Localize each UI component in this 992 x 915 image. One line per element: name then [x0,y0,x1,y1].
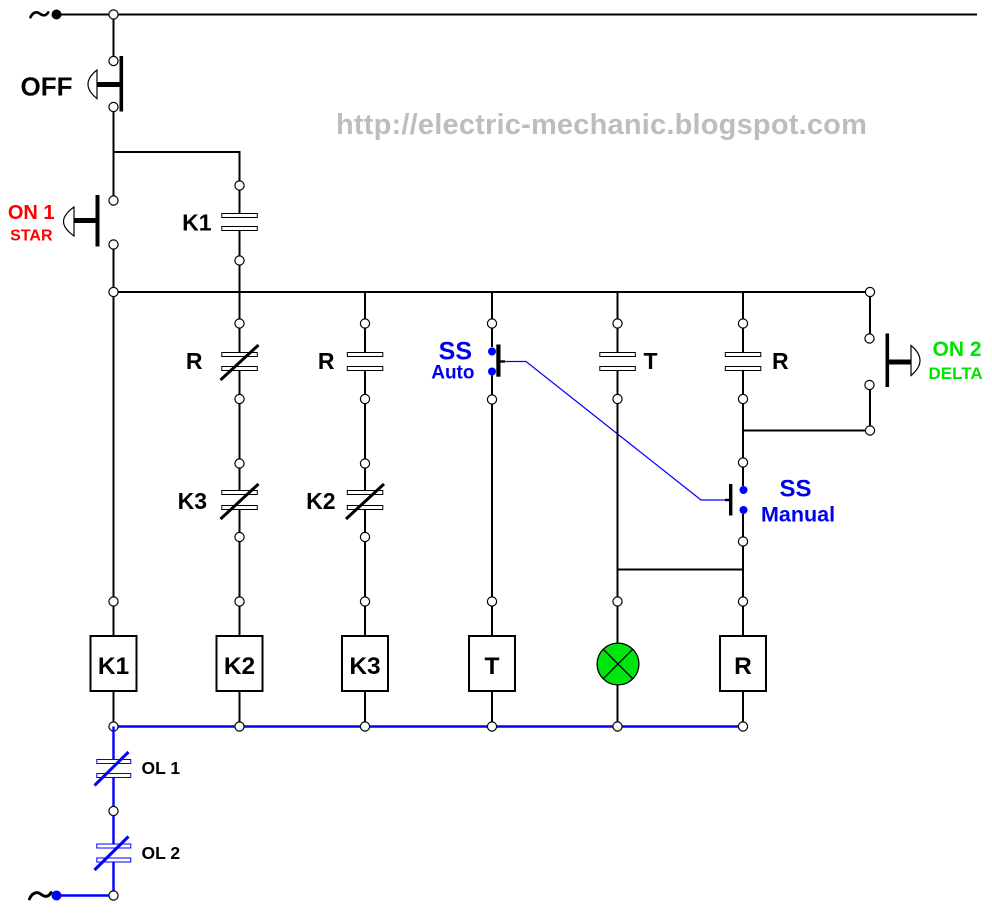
wire [113,607,115,637]
terminal [360,319,369,328]
push button ON2 (NO) [886,334,921,388]
push button ON1 (NO) [64,195,119,249]
wire [617,329,619,354]
wire [364,371,366,395]
terminal above lamp [613,597,622,606]
indicator lamp (green) [597,643,639,685]
svg-text:K1: K1 [98,653,129,680]
svg-text:STAR: STAR [10,228,53,245]
wire [491,376,493,396]
contact K1 (NO seal-in) [222,214,257,231]
terminal [738,458,747,467]
svg-text:Auto: Auto [431,363,474,384]
wire: K1 contact to bus, continues to branch 2 [239,266,241,320]
wire [239,510,241,533]
contact K3 (NC) [221,484,259,519]
wire [239,404,241,459]
wire (blue) to source [57,894,109,896]
wire [239,329,241,354]
terminal above K2 coil [235,597,244,606]
wire [742,607,744,637]
supply terminal dot (bottom, blue) [52,891,62,901]
coil T (timer) [469,636,515,691]
wire [239,691,241,722]
contact R (NO) [725,353,761,371]
svg-text:K2: K2 [306,488,335,514]
node [613,722,622,731]
svg-text:SS: SS [439,338,472,366]
overload contact OL2 (NC, blue) [95,837,131,871]
coil K1 [91,636,137,691]
neutral bus (blue) [114,725,744,727]
svg-text:OL 2: OL 2 [142,843,181,863]
node [738,722,747,731]
wire [742,691,744,722]
terminal [235,459,244,468]
wire [617,685,619,722]
wire [364,510,366,533]
svg-text:OL 1: OL 1 [142,758,181,778]
svg-text:http://electric-mechanic.blogs: http://electric-mechanic.blogspot.com [336,109,867,141]
AC source symbol ~ (top left) [31,12,49,17]
svg-text:K1: K1 [182,210,212,236]
node [487,722,496,731]
selector switch SS (Manual position, open) [725,484,748,516]
control bus [114,291,871,293]
terminal: K1 contact bottom [235,256,244,265]
svg-text:R: R [186,348,203,374]
terminal [235,319,244,328]
wire down to lamp [617,404,619,597]
wire [491,607,493,637]
svg-text:K3: K3 [349,653,380,680]
wire [239,191,241,215]
wire: top rail down to OFF button [113,15,115,57]
wire [742,467,744,486]
terminal bottom [109,891,118,900]
wire [742,514,744,537]
terminal: K1 contact top [235,181,244,190]
wire [617,371,619,395]
node: bus left end [109,287,118,296]
contact R (NO) [347,353,383,371]
wire [617,607,619,647]
wire [364,404,366,459]
terminal [865,426,874,435]
svg-text:R: R [772,348,789,374]
coil K2 [217,636,263,691]
wire (blue) [112,778,114,807]
node: top rail junction [109,10,118,19]
wire [364,607,366,637]
svg-text:DELTA: DELTA [929,364,983,383]
wire [742,546,744,597]
wire [491,329,493,348]
wire [239,231,241,257]
wire through bus [617,292,619,319]
wire [491,691,493,722]
svg-text:OFF: OFF [21,72,73,102]
wire through bus [364,292,366,319]
svg-text:R: R [318,348,335,374]
wire [364,542,366,597]
wire through bus [742,292,744,319]
terminal [360,532,369,541]
svg-text:SS: SS [780,476,812,503]
wire [239,468,241,491]
terminal [738,394,747,403]
terminal [487,395,496,404]
selector switch SS (Auto position, closed) [488,345,505,377]
wire [364,329,366,354]
wire [239,371,241,395]
svg-text:T: T [485,653,500,680]
wire (blue) down to OL1 [112,727,114,761]
node [109,722,118,731]
wire: left rail down to K1 coil [113,297,115,597]
push button OFF (NC) [88,56,123,112]
wire [742,371,744,395]
terminal [865,334,874,343]
terminal [487,319,496,328]
svg-text:ON 1: ON 1 [8,202,55,224]
terminal [235,532,244,541]
terminal above R coil [738,597,747,606]
terminal above K3 coil [360,597,369,606]
node: bus right end [865,287,874,296]
terminal above K1 coil [109,597,118,606]
contact R (NC) [221,345,259,380]
wire: link to ON2 [743,430,870,432]
wire [364,468,366,491]
AC source symbol ~ (bottom) [30,893,52,899]
terminal [738,537,747,546]
svg-text:R: R [734,653,752,680]
wire [869,390,871,431]
wire: OFF to ON1 [113,112,115,197]
supply rail L1 (top) [57,14,978,16]
terminal [865,380,874,389]
selector linkage (blue) [505,362,725,501]
terminal [360,459,369,468]
terminal [613,394,622,403]
wire: link branch5-branch6 [618,569,745,571]
coil R [720,636,766,691]
terminal [360,394,369,403]
coil K3 [342,636,388,691]
wire through bus [491,292,493,319]
wire [742,329,744,354]
terminal [109,806,118,815]
svg-text:T: T [644,348,658,374]
svg-text:ON 2: ON 2 [933,338,982,361]
wire: branch to K1 seal-in contact [114,152,240,181]
wire [364,691,366,722]
contact K2 (NC) [346,484,384,519]
terminal [613,319,622,328]
terminal [235,394,244,403]
wire [113,691,115,722]
contact T (NO, timer) [600,353,636,371]
node [235,722,244,731]
svg-text:K3: K3 [178,488,207,514]
wire: ON1 to bus [113,250,115,293]
overload contact OL1 (NC, blue) [95,752,131,786]
terminal [738,319,747,328]
svg-text:K2: K2 [224,653,255,680]
wire [742,404,744,458]
wire (blue) [112,862,114,891]
wire [491,404,493,597]
node [360,722,369,731]
svg-text:Manual: Manual [761,503,835,527]
wire [869,297,871,334]
supply terminal dot (top left) [52,10,62,20]
wire [239,542,241,597]
wire [239,607,241,637]
terminal above T coil [487,597,496,606]
wire (blue) [112,816,114,845]
